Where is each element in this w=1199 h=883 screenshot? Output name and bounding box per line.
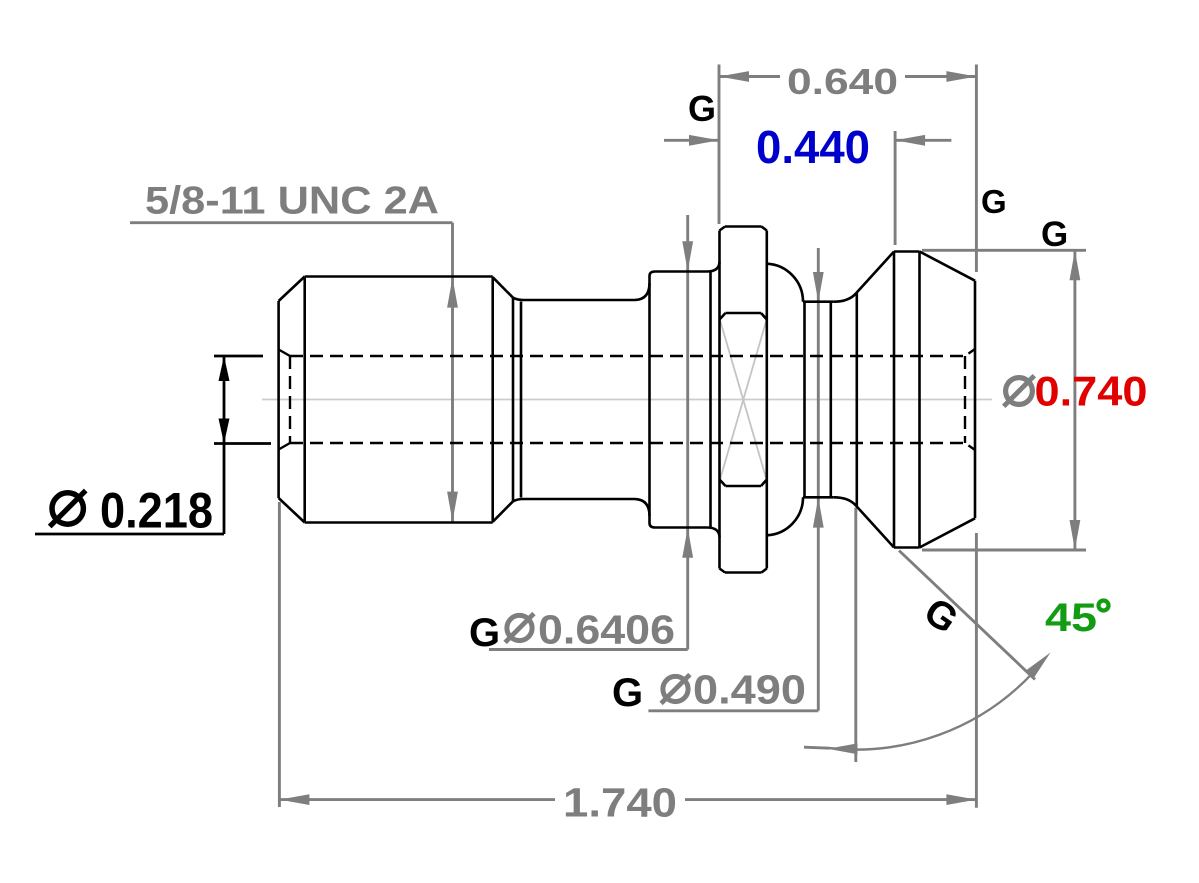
svg-text:0.640: 0.640 [787,61,898,102]
45deg vertical extension line [854,508,857,762]
dim 0.6406 lower arrowhead [682,528,693,558]
collar-to-flange bottom fillet [707,528,720,538]
flange flat X cross line 2 [720,320,767,480]
collar left face line [648,283,651,516]
45deg arc left arrowhead [828,743,858,754]
flange bottom edge [725,571,762,574]
dim 0.740 top arrowhead [1070,250,1081,280]
collar-to-flange top fillet [707,262,720,272]
head right face [974,281,977,519]
flange flat upper-left chamfer [720,313,726,320]
dim 0.640 right extension line [975,65,978,273]
dim 1.740 right extension line [975,533,978,808]
dim 0.440 left arrowhead [689,135,719,146]
dim 0.218 lower arrowhead [219,419,230,444]
flange fillet tangent line [709,272,712,528]
groove right tangent line [829,302,832,498]
dim 0.440 left arrow tail [664,139,719,142]
dim 0.6406 diameter symbol [507,615,532,640]
svg-text:0.740: 0.740 [1035,368,1148,415]
hole right end hidden line [964,356,966,443]
svg-text:G: G [981,183,1007,220]
svg-text:0.490: 0.490 [693,667,806,713]
head front cone bottom edge [856,506,894,548]
hole left countersink upper [279,350,290,357]
45deg arc tail [804,747,830,748]
gauge letter G rotated near 45deg [916,590,966,643]
dim 0.440 right extension line [894,131,897,245]
svg-text:45: 45 [1045,596,1097,640]
svg-text:1.740: 1.740 [563,780,677,826]
neck top surface [523,299,634,302]
flange-to-groove bottom fillet [767,497,803,535]
svg-text:0.440: 0.440 [756,121,870,173]
thread relief bottom chamfer [493,501,513,522]
dim 0.6406 upper arrowhead [682,241,693,271]
flange bottom-right chamfer [762,569,767,573]
dim 0.490 diameter symbol [663,676,688,701]
svg-text:0.218: 0.218 [100,483,213,539]
head cone base line [893,252,896,548]
dim 0.490 lower arrowhead [813,498,824,528]
thread bottom edge [305,521,493,524]
hole lower hidden line [290,442,965,444]
dim 0.440 right arrowhead [895,135,925,146]
dim 0.740 bottom extension line [922,549,1086,552]
dim 0.490 leader horizontal [648,709,818,712]
dim 0.6406 leader horizontal [489,648,688,651]
flange top edge [725,225,762,228]
45deg extension diagonal [899,551,1035,680]
hole left countersink lower [279,443,290,450]
dim 0.640 line left segment [719,75,780,78]
dim 0.218 lower tick [214,442,271,445]
groove-to-cone bottom fillet [834,497,857,506]
svg-text:0.6406: 0.6406 [538,607,675,653]
flange flat upper-right chamfer [761,313,767,320]
svg-text:5/8-11 UNC 2A: 5/8-11 UNC 2A [145,180,439,223]
head top surface [894,250,920,253]
thread dim upper arrowhead [447,278,458,308]
dim 0.218 upper arrowhead [219,356,230,381]
dim 0.740 dimension line [1073,250,1076,550]
svg-text:G: G [688,88,716,129]
dim 1.740 left arrowhead [279,794,309,805]
flange flat X cross line 1 [720,320,767,480]
dim 0.490 upper arrowhead [813,272,824,302]
flange left edge [718,231,721,569]
thread relief edge line [512,298,515,502]
head land edge line [918,252,921,548]
head front cone top edge [856,252,894,294]
groove-to-cone top fillet [834,293,857,302]
thread callout underline [130,221,453,224]
flange flat lower edge [726,485,762,488]
neck bottom surface [523,498,634,501]
dim 0.640 left arrowhead [719,71,749,82]
head back cone bottom edge [920,518,976,547]
flange-to-groove top fillet [767,264,803,302]
centerline [262,399,992,401]
flange bottom-left chamfer [720,569,726,573]
dim 0.440 right arrow tail [895,139,951,142]
collar top surface [655,270,707,273]
dim 0.490 leader vertical [817,248,820,711]
dim 0.740 bottom arrowhead [1070,520,1081,550]
svg-text:G: G [469,611,500,655]
flange right edge [765,231,768,569]
thread end face line [491,277,494,523]
dim 0.218 upper tick [214,355,263,358]
dim 0.640 line right segment [905,75,976,78]
dim 1.740 line right segment [685,798,976,801]
head bottom surface [894,546,920,549]
dim 1.740 left extension line [278,502,281,807]
svg-text:G: G [1041,215,1068,254]
45deg dimension arc [829,674,1031,750]
thread left top chamfer [279,277,305,302]
groove left tangent line [803,302,806,498]
thread left bottom chamfer [279,498,305,523]
flange flat upper edge [726,312,762,315]
dim 0.640 right arrowhead [946,71,976,82]
dim 0.740 top extension line [922,249,1086,252]
neck-to-collar bottom fillet [634,499,650,516]
45deg arc right arrowhead [1026,653,1051,679]
hole right countersink upper [965,349,975,356]
hole upper hidden line [290,355,965,357]
neck-to-collar top fillet [634,283,650,300]
hole right countersink lower [965,443,975,450]
relief-to-neck top fillet [513,298,523,300]
hole left end hidden line [289,356,291,443]
thread callout leader vertical [451,223,454,522]
thread relief top chamfer [493,277,513,298]
dim 0.218 leader horizontal [35,533,224,536]
collar bottom-left corner [650,516,656,528]
dim 0.6406 leader vertical [686,215,689,650]
relief-to-neck bottom fillet [513,499,523,501]
thread dim lower arrowhead [447,492,458,522]
thread chamfer edge line [303,277,306,523]
thread section left face [277,301,280,498]
dim 0.640 left extension line [718,65,721,225]
relief fillet tangent line [520,302,523,498]
svg-text:G: G [612,671,643,715]
dim 0.218 diameter symbol [52,493,83,524]
dim 1.740 right arrowhead [946,794,976,805]
head back cone top edge [920,252,976,281]
cone tangent line [855,293,858,506]
flange flat lower-right chamfer [761,480,767,487]
collar top-left corner [650,272,656,284]
dim 0.740 diameter symbol [1006,378,1033,405]
flange flat lower-left chamfer [720,480,726,487]
collar bottom surface [655,526,707,529]
groove bottom surface [803,496,834,499]
groove top surface [803,300,834,303]
dim 1.740 line left segment [279,798,555,801]
thread top edge [305,275,493,278]
flange top-right chamfer [762,227,767,231]
flange top-left chamfer [720,227,726,231]
dim 0.218 vertical line [223,356,226,534]
